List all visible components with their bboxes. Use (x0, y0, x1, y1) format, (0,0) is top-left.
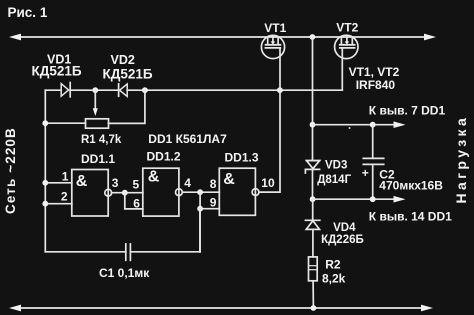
resistor R1 (86, 119, 109, 128)
node R1 branch junction (142, 87, 148, 93)
node bottom junction (311, 305, 317, 311)
svg-text:8,2k: 8,2k (322, 272, 346, 286)
node pin1 junction (42, 180, 48, 186)
capacitor C2 (372, 125, 374, 159)
svg-text:VD3: VD3 (325, 160, 347, 172)
wire pin 9 (200, 192, 219, 209)
node pin5/6 junction (122, 190, 128, 196)
wire top mains rail (17, 36, 428, 38)
wire VD4 to R2 (312, 229, 314, 257)
svg-text:VT1: VT1 (264, 21, 286, 35)
wire R1 left lead (45, 122, 85, 124)
svg-text:КД226Б: КД226Б (321, 234, 364, 246)
svg-text:С1 0,1мк: С1 0,1мк (99, 266, 150, 280)
wire DD1.2 out to pin8 (182, 191, 219, 193)
svg-text:DD1.2: DD1.2 (147, 150, 181, 164)
svg-text:R2: R2 (325, 257, 341, 271)
svg-text:Д814Г: Д814Г (317, 174, 351, 186)
gate DD1.2 (143, 168, 179, 216)
svg-text:&: & (223, 171, 235, 188)
svg-text:Нагрузка: Нагрузка (453, 115, 469, 204)
svg-text:DD1.1: DD1.1 (81, 152, 115, 166)
svg-text:VD2: VD2 (111, 53, 135, 67)
node: bottom-right load arrow (421, 305, 433, 312)
node scan speck (349, 127, 351, 129)
svg-text:DD1 К561ЛА7: DD1 К561ЛА7 (148, 132, 227, 146)
wire DD1.1 out to pin5 (112, 192, 143, 194)
svg-text:3: 3 (112, 176, 119, 190)
wire pin 2 (45, 203, 72, 205)
svg-text:470мкх16В: 470мкх16В (379, 178, 443, 192)
wire feedback drop (199, 209, 201, 252)
svg-text:VT2: VT2 (336, 21, 358, 35)
diode VD1 (61, 84, 68, 97)
diode VD2 (118, 84, 120, 96)
node C2 bottom junction (370, 196, 376, 202)
resistor R2 (309, 257, 318, 281)
node gates junction (277, 87, 283, 93)
svg-text:10: 10 (261, 176, 275, 190)
svg-text:IRF840: IRF840 (356, 78, 396, 92)
svg-text:К выв. 14 DD1: К выв. 14 DD1 (369, 209, 452, 223)
svg-text:+: + (362, 166, 369, 180)
wire R1 right lead (109, 90, 145, 123)
wire VD1 to node (70, 89, 118, 91)
node pin14 branch (310, 196, 316, 202)
wire diode row left segment (45, 89, 61, 91)
svg-text:К выв. 7 DD1: К выв. 7 DD1 (369, 104, 446, 118)
svg-text:R1 4,7k: R1 4,7k (81, 134, 122, 146)
svg-text:VT1, VT2: VT1, VT2 (349, 65, 400, 79)
wire bottom common rail (17, 307, 425, 309)
transistor VT1 (261, 35, 284, 58)
svg-text:8: 8 (210, 177, 217, 191)
zener VD3 (305, 161, 319, 173)
svg-text:Рис. 1: Рис. 1 (8, 5, 48, 20)
svg-text:КД521Б: КД521Б (103, 67, 153, 82)
svg-text:9: 9 (210, 196, 217, 210)
transistor VT2 (335, 35, 358, 58)
svg-text:2: 2 (61, 190, 68, 204)
wire DD1.3 out up to VT1 gate (259, 48, 280, 192)
wire R1 wiper arrow (94, 90, 96, 109)
node: left mains arrow (9, 34, 21, 41)
svg-text:6: 6 (133, 197, 140, 211)
svg-text:5: 5 (133, 178, 140, 192)
wire node to VD4 (312, 199, 314, 220)
svg-text:1: 1 (62, 170, 69, 184)
gate DD1.3 (219, 168, 255, 215)
svg-text:4: 4 (184, 176, 191, 190)
svg-text:КД521Б: КД521Б (32, 64, 82, 79)
wire left vertical bus (44, 90, 46, 252)
wire feedback right (130, 251, 200, 253)
wire VD3 to node (312, 169, 314, 199)
svg-text:Сеть ~220В: Сеть ~220В (3, 127, 18, 214)
node pin2 junction (42, 201, 48, 207)
wire gate row to VT2 (127, 48, 342, 90)
gate DD1.1 (72, 170, 108, 217)
node drain junction (310, 34, 316, 40)
wire feedback bottom (45, 251, 126, 253)
node pin7 branch (310, 122, 316, 128)
node C2 top junction (370, 122, 376, 128)
svg-text:&: & (148, 168, 160, 185)
node feedback junction (197, 206, 203, 212)
svg-text:VD4: VD4 (333, 222, 356, 234)
node pin8/9 junction (197, 189, 203, 195)
wire drain down to VD3 (312, 37, 314, 160)
wire to pin 7 DD1 (313, 124, 397, 126)
wire to pin 14 DD1 (313, 198, 396, 200)
svg-text:DD1.3: DD1.3 (225, 151, 259, 165)
node: right load arrow (424, 34, 436, 41)
diode VD4 (305, 220, 319, 229)
node R1 left junction (42, 120, 48, 126)
svg-text:&: & (76, 173, 88, 190)
node wiper junction (92, 87, 98, 93)
capacitor C1 (125, 244, 127, 260)
node: bottom-left mains arrow (9, 305, 21, 312)
wire pin 1 (45, 182, 72, 184)
wire R2 to bottom rail (312, 281, 314, 308)
wire pin 6 (125, 193, 143, 209)
